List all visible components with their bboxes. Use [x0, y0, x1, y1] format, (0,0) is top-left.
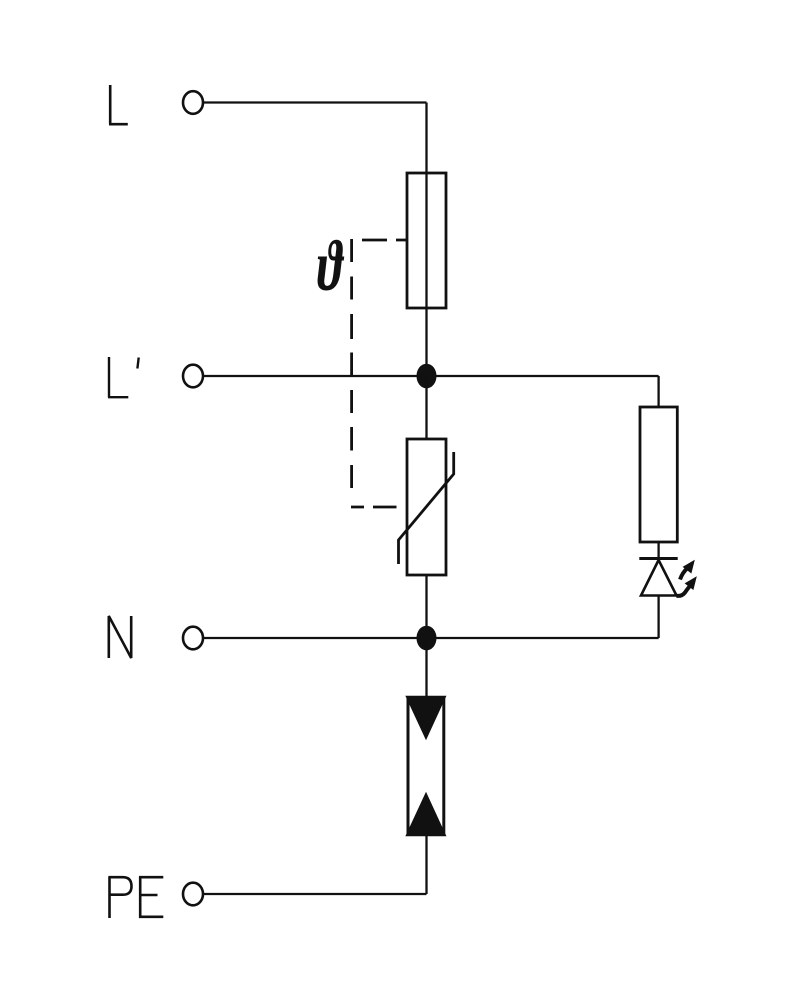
terminal circle PE [183, 883, 203, 906]
wire L to bus [204, 101, 427, 103]
node junction L' [417, 364, 437, 389]
fuse F1 (thermal disconnect) [407, 173, 446, 308]
wire bus vertical L to L' (through fuse) [425, 103, 427, 377]
wire varistor to N [425, 575, 427, 638]
terminal circle L' [183, 365, 203, 388]
wire bus L' to varistor [425, 376, 427, 439]
terminal circle N [183, 627, 203, 650]
wire L' horizontal to right branch [204, 375, 659, 377]
wire spark gap to PE [425, 834, 427, 894]
wire resistor to LED [657, 542, 659, 560]
terminal circle L [183, 91, 203, 114]
varistor RV1 [399, 439, 454, 575]
label L' [108, 357, 139, 397]
wire N to spark gap [425, 638, 427, 700]
svg-text:ϑ: ϑ [317, 226, 344, 306]
resistor R1 [640, 407, 677, 542]
spark gap F2 (back-to-back arrows) [407, 697, 446, 836]
node junction N [417, 626, 437, 651]
LED D1 [639, 559, 677, 596]
LED emission arrow 2 [677, 576, 697, 596]
wire LED to N [657, 596, 659, 639]
LED emission arrow 1 [680, 560, 695, 580]
wire right branch L' down to resistor [657, 376, 659, 407]
dashed thermal linkage [351, 239, 407, 507]
wire N horizontal [204, 637, 659, 639]
label N [109, 616, 131, 658]
wire PE horizontal [204, 893, 427, 895]
label PE [109, 877, 164, 919]
label L [109, 85, 128, 124]
